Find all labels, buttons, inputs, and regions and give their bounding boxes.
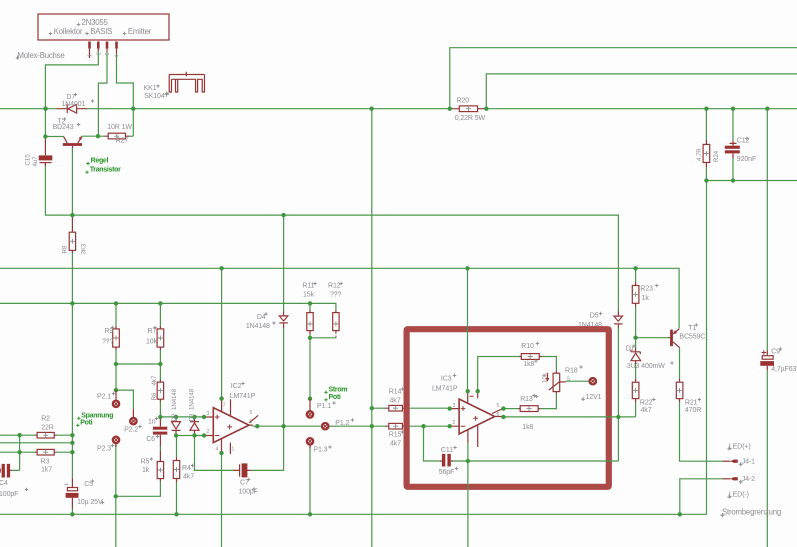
diode D5 xyxy=(617,312,619,330)
wire P1.1 column xyxy=(309,303,311,398)
resistor R12 xyxy=(335,311,337,334)
svg-text:7: 7 xyxy=(223,403,226,409)
resistor R22 xyxy=(635,379,637,402)
wire node to T2 collector xyxy=(45,136,64,138)
svg-text:1N4148: 1N4148 xyxy=(189,388,196,410)
svg-text:Poti: Poti xyxy=(80,419,92,426)
svg-text:LED(+): LED(+) xyxy=(729,443,751,450)
wire IC2 pin4 column xyxy=(221,453,223,547)
resistor R15 xyxy=(386,425,407,427)
svg-text:J4-1: J4-1 xyxy=(742,459,755,466)
resistor R7 xyxy=(159,326,161,350)
wire op-amp minus input row xyxy=(176,435,206,437)
svg-text:SK104: SK104 xyxy=(144,93,165,100)
svg-text:4k7: 4k7 xyxy=(151,375,158,385)
wire R22 bottom join xyxy=(635,402,637,417)
svg-text:R23: R23 xyxy=(640,286,653,293)
svg-text:2N3055: 2N3055 xyxy=(82,18,109,27)
wire C5 bottom xyxy=(71,509,73,515)
svg-text:Spannung: Spannung xyxy=(81,412,113,419)
wire mid right row xyxy=(706,180,797,182)
resistor R9 xyxy=(115,326,117,350)
svg-text:R5: R5 xyxy=(141,459,150,466)
svg-text:BD243: BD243 xyxy=(53,124,74,131)
svg-text:D2: D2 xyxy=(171,413,178,421)
svg-text:R3: R3 xyxy=(41,459,50,466)
svg-text:4k7: 4k7 xyxy=(641,407,652,414)
wire R10 left riser xyxy=(478,357,520,392)
origin cross 12V1 xyxy=(581,397,585,401)
wire top bus xyxy=(0,108,797,110)
wire R21 to J4-1 xyxy=(680,402,723,462)
svg-text:R27: R27 xyxy=(116,137,129,144)
svg-text:C6: C6 xyxy=(146,436,155,443)
wire R23 to T1 base xyxy=(636,337,669,339)
svg-text:4: 4 xyxy=(115,55,121,58)
svg-text:1k: 1k xyxy=(642,295,650,302)
svg-text:P2.3: P2.3 xyxy=(97,446,111,453)
wire R4 top xyxy=(175,436,178,458)
origin cross LED(+) xyxy=(727,446,731,450)
junction dots xyxy=(43,107,47,111)
svg-text:R2: R2 xyxy=(41,416,50,423)
wire R9-R7 bottom join xyxy=(116,363,160,365)
diode D4 xyxy=(283,312,285,329)
wire middle left row xyxy=(0,442,72,444)
svg-text:1N4148: 1N4148 xyxy=(171,388,178,410)
svg-text:4,7R: 4,7R xyxy=(696,148,703,161)
svg-text:3K3: 3K3 xyxy=(81,243,88,254)
svg-text:D5: D5 xyxy=(590,313,599,320)
svg-text:Strombegrenzung: Strombegrenzung xyxy=(722,508,781,517)
resistor R10 xyxy=(519,356,542,358)
svg-text:J4-2: J4-2 xyxy=(742,476,755,483)
svg-text:Kollektor: Kollektor xyxy=(54,27,83,36)
pot contact P2.2 xyxy=(132,410,134,418)
wire R14 row left xyxy=(372,407,386,409)
svg-text:D3: D3 xyxy=(189,413,196,421)
pot contact P1.3 xyxy=(309,445,311,449)
capacitor C9 xyxy=(766,351,768,371)
svg-text:R18: R18 xyxy=(565,368,578,375)
wire net y303 xyxy=(0,303,336,311)
svg-text:1N4148: 1N4148 xyxy=(246,323,270,330)
svg-text:???: ??? xyxy=(330,292,342,299)
wire R3 row xyxy=(0,451,72,453)
wire P2.3 column down xyxy=(115,445,117,547)
origin cross Molex xyxy=(16,56,20,60)
svg-text:0,22R 5W: 0,22R 5W xyxy=(455,115,486,122)
op-amp IC3 xyxy=(459,399,495,434)
svg-text:4,7µF63V: 4,7µF63V xyxy=(771,366,797,373)
svg-text:R12: R12 xyxy=(328,283,341,290)
wire C6 to R5 gap xyxy=(159,446,161,452)
connector arrow J4-2 xyxy=(723,478,731,480)
svg-text:R9: R9 xyxy=(104,328,113,335)
diode D7 xyxy=(57,108,88,110)
wire long column x372 xyxy=(371,109,373,547)
resistor R8 xyxy=(71,215,73,253)
svg-text:5: 5 xyxy=(497,403,500,409)
connector arrow J4-1 xyxy=(723,460,731,462)
wire R15 to IC3 pin2 xyxy=(406,425,450,427)
svg-text:P2.2: P2.2 xyxy=(124,426,138,433)
wire P1.2 to R15 xyxy=(329,425,386,427)
wire R8 column xyxy=(71,253,73,480)
wire trimmer wiper to 12V1 xyxy=(566,380,589,382)
resistor R6 xyxy=(159,380,161,402)
svg-text:P1.1: P1.1 xyxy=(317,403,331,410)
transistor T1 xyxy=(670,330,673,347)
pin stub 3 xyxy=(106,42,109,49)
capacitor C4 xyxy=(2,464,5,478)
wire R19 column xyxy=(705,109,707,181)
svg-text:Regel: Regel xyxy=(91,158,109,165)
svg-text:???: ??? xyxy=(102,339,114,346)
heatsink KK1 xyxy=(169,72,204,92)
svg-text:C15: C15 xyxy=(25,154,32,166)
wire output to C7 right plate xyxy=(250,426,284,470)
wire R2 row xyxy=(0,434,72,436)
wire trimmer bottom to R13 xyxy=(541,394,557,409)
origin cross R18 xyxy=(532,394,536,398)
wire T2 emitter to R27 xyxy=(82,135,106,137)
svg-text:1: 1 xyxy=(88,54,94,57)
wire R4 bottom xyxy=(176,482,178,515)
capacitor C7 xyxy=(234,469,251,471)
diode D3 xyxy=(194,418,196,436)
svg-text:C11: C11 xyxy=(441,447,453,454)
svg-text:LM741P: LM741P xyxy=(432,385,458,392)
svg-text:1N4001: 1N4001 xyxy=(61,101,85,108)
svg-text:4: 4 xyxy=(216,447,219,453)
wire J4-2 riser xyxy=(680,479,723,515)
svg-text:C7: C7 xyxy=(240,480,249,487)
wire R10 right to trimmer xyxy=(542,357,557,371)
resistor R21 xyxy=(679,379,681,402)
svg-text:BC559C: BC559C xyxy=(679,334,705,341)
svg-text:100pF: 100pF xyxy=(0,491,18,498)
svg-text:2: 2 xyxy=(96,52,102,55)
wire IC2 pin7 to bus B xyxy=(221,268,223,398)
svg-text:3U3 400mW: 3U3 400mW xyxy=(627,363,665,370)
pot contact P1.2 xyxy=(322,423,328,429)
svg-text:3: 3 xyxy=(105,53,111,56)
svg-text:Strom: Strom xyxy=(329,386,348,393)
svg-text:R24: R24 xyxy=(713,150,720,162)
svg-text:KK1: KK1 xyxy=(144,85,157,92)
svg-text:10R 1W: 10R 1W xyxy=(107,124,132,131)
capacitor C5 xyxy=(71,479,73,510)
resistor R3 xyxy=(35,451,57,453)
capacitor C15 xyxy=(44,137,46,156)
wire bottom bus xyxy=(0,181,707,515)
capacitor C12 xyxy=(730,141,737,158)
zener diode D1 xyxy=(635,348,637,364)
origin cross J4-1 xyxy=(739,462,743,466)
svg-text:1k8: 1k8 xyxy=(522,424,533,431)
svg-text:R14: R14 xyxy=(389,389,402,396)
resistor R23 xyxy=(635,283,637,307)
wire D5 column lower (over box) xyxy=(617,328,619,462)
wire C15 bottom and bus A and drop to D5 xyxy=(45,163,618,312)
svg-text:D1: D1 xyxy=(626,346,635,353)
svg-text:56pF: 56pF xyxy=(439,469,455,476)
wire molex pin2 to C15 node xyxy=(45,51,98,137)
resistor R14 xyxy=(386,407,407,409)
svg-text:P1.2: P1.2 xyxy=(335,420,349,427)
wire P1.3 column xyxy=(309,446,311,515)
svg-text:4k7: 4k7 xyxy=(390,397,401,404)
resistor R27 xyxy=(105,135,130,137)
svg-text:12V1: 12V1 xyxy=(586,394,602,401)
svg-text:R6: R6 xyxy=(151,392,158,400)
wire molex pin3 to R27 left node xyxy=(98,52,107,137)
wire R5 bottom to P2.3 column xyxy=(116,481,161,497)
resistor R20 xyxy=(453,108,484,110)
highlight box xyxy=(407,329,609,487)
svg-text:R13: R13 xyxy=(520,396,533,403)
wire R12 bottom join xyxy=(310,336,336,338)
svg-text:4u7: 4u7 xyxy=(32,156,39,167)
wire IC2 output row to P1.2 xyxy=(253,425,322,427)
pot contact P1.1 xyxy=(309,399,311,411)
svg-text:Molex-Buchse: Molex-Buchse xyxy=(18,51,65,60)
wire P2.1 to P2.2 xyxy=(116,390,133,410)
svg-text:T1: T1 xyxy=(688,325,696,332)
green note origin crosses xyxy=(77,417,80,420)
wire D4 column xyxy=(283,215,285,426)
wire bus B xyxy=(0,268,679,328)
origin cross Strombegrenzung xyxy=(720,513,724,517)
svg-text:IC3: IC3 xyxy=(441,376,452,383)
svg-text:P2.1: P2.1 xyxy=(97,393,111,400)
trimmer R18 xyxy=(553,373,560,391)
wire T1 emitter down to R21 xyxy=(679,348,681,380)
svg-text:1n: 1n xyxy=(148,419,156,426)
svg-text:BASIS: BASIS xyxy=(90,27,112,36)
svg-text:3: 3 xyxy=(453,403,456,409)
svg-text:1: 1 xyxy=(232,447,235,453)
pin stub 1 xyxy=(88,42,91,49)
svg-text:R11: R11 xyxy=(302,283,314,290)
svg-text:15k: 15k xyxy=(303,292,315,299)
origin cross J4-2 xyxy=(739,480,743,484)
pot contact P2.1 xyxy=(115,390,117,400)
wire R7 column xyxy=(159,303,161,364)
resistor R4 xyxy=(176,457,178,482)
label origin crosses xyxy=(74,93,77,96)
wire R6 column xyxy=(159,364,161,417)
svg-text:C4: C4 xyxy=(0,480,8,487)
svg-text:3: 3 xyxy=(207,411,210,417)
wire C11 left riser xyxy=(424,426,441,461)
svg-text:R22: R22 xyxy=(640,399,653,406)
svg-text:D4: D4 xyxy=(257,314,266,321)
svg-text:2: 2 xyxy=(207,429,210,435)
svg-text:Transistor: Transistor xyxy=(90,166,121,173)
wire R14 to IC3 pin3 xyxy=(406,407,450,409)
svg-text:Emitter: Emitter xyxy=(128,27,152,36)
resistor R13 xyxy=(518,408,541,410)
grey origin crosses in resistors xyxy=(43,92,709,473)
wire top right feed 2 xyxy=(486,74,797,109)
wire top right feed 1 xyxy=(450,48,797,109)
resistor R5 xyxy=(159,451,161,482)
svg-text:2: 2 xyxy=(453,420,456,426)
svg-text:10µ 25V: 10µ 25V xyxy=(77,499,103,506)
svg-text:Poti: Poti xyxy=(329,394,341,401)
transistor T2 xyxy=(63,143,82,146)
svg-text:22R: 22R xyxy=(41,424,54,431)
svg-text:IC2: IC2 xyxy=(231,383,242,390)
pot contact 12V1 xyxy=(590,378,596,384)
wire T2 base down to bus A xyxy=(71,148,73,216)
wire IC3 pin4 column (over box) xyxy=(467,443,469,547)
svg-text:1k8: 1k8 xyxy=(523,361,534,368)
svg-text:4k7: 4k7 xyxy=(390,440,401,447)
resistor R19 xyxy=(705,140,707,167)
svg-text:1k: 1k xyxy=(142,467,150,474)
resistor R11 xyxy=(309,311,311,334)
svg-text:P1.3: P1.3 xyxy=(313,447,327,454)
connector X1 2N3055 box xyxy=(38,14,169,40)
wire feedback to C7 xyxy=(195,436,235,471)
wire IC3 output row (over box) xyxy=(503,416,635,418)
op-amp IC2 xyxy=(213,408,249,443)
svg-text:6: 6 xyxy=(497,412,500,418)
capacitor C6 xyxy=(159,417,161,446)
pin stub 2 xyxy=(97,42,100,49)
pot contact P2.3 xyxy=(115,443,117,447)
wire C12 column xyxy=(732,109,734,181)
wire C11 right to D5 column (over box) xyxy=(453,460,619,462)
wire R23 column xyxy=(635,268,637,379)
svg-text:10k: 10k xyxy=(146,339,158,346)
svg-text:470R: 470R xyxy=(685,407,701,414)
svg-text:920nF: 920nF xyxy=(737,156,756,163)
wire C4 join xyxy=(12,435,20,470)
svg-text:R10: R10 xyxy=(521,343,534,350)
wire molex pin4 to bus node xyxy=(117,54,134,136)
svg-text:R21: R21 xyxy=(685,399,698,406)
svg-text:R8: R8 xyxy=(62,245,69,253)
svg-text:6: 6 xyxy=(250,419,253,425)
svg-text:R20: R20 xyxy=(457,98,470,105)
svg-text:10k: 10k xyxy=(542,372,549,383)
diode D2 xyxy=(175,418,177,436)
resistor R2 xyxy=(35,434,57,436)
origin cross LED(-) xyxy=(727,494,731,498)
svg-text:4k7: 4k7 xyxy=(183,474,194,481)
svg-text:LM741P: LM741P xyxy=(230,393,256,400)
svg-text:LED(-): LED(-) xyxy=(729,492,749,499)
svg-text:1k7: 1k7 xyxy=(41,467,52,474)
wire C9 column xyxy=(766,109,768,547)
pin stub 4 xyxy=(115,42,118,49)
svg-text:R4: R4 xyxy=(182,465,191,472)
svg-text:5: 5 xyxy=(250,410,253,416)
wire op-amp plus input row xyxy=(160,416,206,418)
svg-text:R15: R15 xyxy=(389,432,402,439)
wire R13 left to pin5 xyxy=(503,408,518,410)
wire IC3 pin7 to bus B (over box) xyxy=(467,268,469,391)
capacitor C11 xyxy=(440,460,454,462)
wire R9 column xyxy=(115,303,117,390)
wire R27 right to bus xyxy=(129,135,134,137)
svg-text:C5: C5 xyxy=(84,481,93,488)
